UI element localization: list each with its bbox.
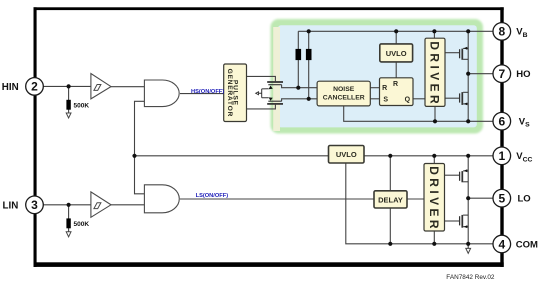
pin 8 VB (493, 23, 511, 41)
wire schmitt1 to AND1 (111, 86, 144, 88)
wire VCC rail left part (135, 155, 329, 157)
pin 7 HO (493, 65, 511, 83)
driver1 block (high side) (425, 38, 445, 106)
svg-text:500K: 500K (74, 221, 90, 228)
wire UVLO1 to latch R (395, 62, 397, 78)
svg-text:DRIVER: DRIVER (427, 166, 441, 232)
wire low-side output stack (467, 156, 469, 244)
wire schmitt2 to AND2 (111, 204, 144, 206)
svg-text:R: R (393, 81, 398, 88)
level shifter transistor M2 gate bar (268, 100, 281, 102)
wire driver2 to Q4 gate (445, 220, 460, 222)
svg-text:DELAY: DELAY (378, 195, 403, 204)
COM ground arrow (466, 248, 471, 253)
resistor R1 body (296, 49, 302, 60)
svg-text:FAN7842 Rev.02: FAN7842 Rev.02 (446, 274, 495, 281)
svg-text:R: R (382, 85, 387, 92)
high-side shaded region (blue fill) (278, 25, 477, 127)
node HO (466, 72, 470, 76)
wire 500K resistor R4 drop (68, 205, 70, 232)
svg-text:500K: 500K (74, 103, 90, 110)
RS latch U3 (380, 78, 414, 106)
wire noise canceller bottom to VS rail (344, 106, 493, 121)
noise canceller block (317, 81, 370, 106)
wire resistor R2 branch (308, 31, 310, 99)
transistor Q4 source arrow (464, 225, 468, 228)
wire driver1 top power (433, 31, 435, 38)
transistor Q2 source arrow (464, 103, 468, 106)
wire vcc feedback to AND gates (135, 101, 145, 194)
wire pin2 to schmitt1 (43, 85, 91, 87)
pin 2 HIN (26, 78, 44, 96)
wire latch Q to driver1 (413, 98, 425, 100)
transistor Q1 source arrow (464, 47, 468, 50)
svg-text:HS(ON/OFF): HS(ON/OFF) (191, 89, 224, 95)
wire noise canceller to latch S input (370, 98, 379, 100)
pin 5 LO (493, 189, 511, 207)
wire pulse generator out bottom (247, 105, 276, 109)
pin 1 VCC (493, 147, 511, 165)
node COM junctions (388, 242, 392, 246)
resistor R4 500K body (66, 218, 70, 228)
wire LO to pin5 (468, 197, 493, 199)
node level shift A (296, 86, 300, 90)
svg-text:3: 3 (31, 198, 38, 212)
resistor R4 ground arrow (66, 232, 71, 237)
wire driver1 to Q1 gate (445, 52, 460, 54)
transistor Q2 NMOS high side (460, 92, 469, 105)
transistor Q3 PMOS low side (460, 171, 469, 182)
svg-text:1: 1 (498, 149, 505, 163)
node VS junctions (433, 119, 437, 123)
AND gate G1 (144, 80, 179, 107)
wire driver1 to Q2 gate (445, 97, 460, 99)
level shifter common gate node (258, 89, 268, 98)
level shifter transistor M1 channel (267, 81, 283, 83)
wire level shifter out A to noise canceller (282, 85, 318, 88)
level shifter source arrow M1 (269, 86, 273, 90)
wire HS(ON/OFF) AND1 out to pulse generator (180, 93, 224, 95)
wire driver2 bottom power (433, 231, 435, 244)
node VB rail junctions (307, 29, 311, 33)
schmitt trigger buffer U2 (91, 192, 111, 217)
cream band over green left border (273, 27, 280, 131)
wire VCC rail right part (364, 155, 493, 157)
transistor Q3 source arrow (464, 169, 468, 172)
node HIN input (67, 84, 71, 88)
wire delay bottom power (389, 208, 391, 244)
svg-text:8: 8 (498, 25, 505, 39)
svg-text:5: 5 (498, 192, 505, 206)
svg-text:LIN: LIN (3, 200, 19, 211)
wire UVLO2 bottom to COM rail (346, 163, 493, 244)
wire pin3 to schmitt2 (43, 204, 91, 206)
level shifter source arrow M2 (269, 97, 273, 100)
svg-text:LS(ON/OFF): LS(ON/OFF) (196, 193, 229, 199)
svg-text:6: 6 (498, 115, 505, 129)
UVLO1 block (high side) (380, 44, 413, 62)
svg-text:HIN: HIN (2, 82, 19, 93)
node LIN input (67, 203, 71, 207)
IC boundary box (34, 7, 504, 267)
svg-text:NOISE: NOISE (333, 86, 355, 93)
node LO (466, 196, 470, 200)
level shifter transistor M2 channel (267, 103, 283, 105)
wire driver1 bottom power (434, 106, 436, 121)
schmitt trigger buffer U1 (91, 74, 111, 99)
resistor R3 500K body (66, 100, 70, 110)
svg-text:S: S (383, 96, 388, 103)
wire driver2 top power (433, 156, 435, 164)
AND gate G2 (144, 185, 179, 213)
wire resistor R1 branch (297, 31, 299, 87)
svg-text:4: 4 (498, 237, 505, 251)
wire level shifter out B to noise canceller (282, 99, 318, 101)
pin 6 VS (493, 112, 511, 130)
wire 500K resistor R3 drop (68, 86, 70, 113)
schmitt U1 hysteresis glyph (94, 85, 101, 91)
wire delay out to driver2 (407, 198, 424, 200)
svg-text:UVLO: UVLO (336, 150, 357, 159)
driver2 block (low side) (424, 164, 445, 232)
wire high-side output stack (467, 31, 469, 121)
high-side shaded region (green border) (271, 19, 484, 134)
svg-text:LO: LO (518, 194, 531, 205)
wire VB rail (298, 30, 493, 32)
wire UVLO1 top (395, 31, 397, 44)
resistor R3 ground arrow (66, 113, 71, 118)
UVLO2 block (low side) (329, 146, 365, 164)
pin 4 COM (493, 235, 511, 253)
wire noise canceller to latch R input (370, 87, 379, 89)
wire delay top power (389, 156, 391, 191)
wire pulse generator out top (247, 76, 276, 81)
transistor Q4 NMOS low side (460, 215, 469, 228)
pulse generator block (224, 64, 247, 122)
resistor R2 body (306, 49, 312, 60)
wire driver2 to Q3 gate (445, 174, 460, 176)
node VCC junctions (132, 154, 136, 158)
svg-text:COM: COM (516, 239, 538, 250)
svg-text:Q: Q (405, 96, 411, 103)
svg-text:7: 7 (498, 67, 505, 81)
svg-text:UVLO: UVLO (386, 49, 407, 58)
schmitt U2 hysteresis glyph (94, 203, 101, 209)
wire COM ground stub (467, 244, 469, 249)
svg-text:HO: HO (516, 69, 530, 80)
node level shift B (307, 97, 311, 101)
wire LS(ON/OFF) AND2 out to delay (180, 198, 374, 200)
svg-text:DRIVER: DRIVER (428, 41, 442, 107)
svg-text:2: 2 (31, 80, 38, 94)
pin 3 LIN (26, 196, 44, 214)
wire HO to pin7 (468, 73, 493, 75)
delay block (374, 191, 407, 208)
svg-text:CANCELLER: CANCELLER (323, 95, 365, 102)
transistor Q1 PMOS high side (460, 48, 469, 59)
level shifter input open arrow (256, 92, 259, 95)
level shifter transistor M1 gate bar (268, 84, 281, 86)
